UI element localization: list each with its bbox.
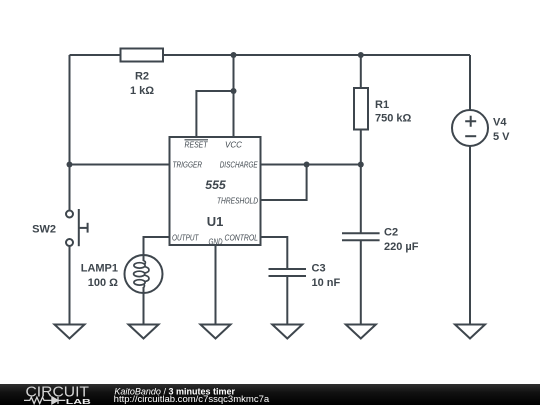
wire VCC drop (233, 55, 235, 137)
wire GND pin (215, 245, 217, 325)
logo resistor-diode squiggle (24, 397, 65, 404)
svg-text:THRESHOLD: THRESHOLD (217, 197, 258, 206)
reset overline (185, 139, 209, 141)
svg-text:OUTPUT: OUTPUT (172, 234, 199, 243)
resistor R1 (354, 88, 368, 130)
node junction top R1 (358, 52, 364, 58)
wire reset loop (196, 91, 233, 137)
node junction trigger (67, 162, 73, 168)
svg-text:100 Ω: 100 Ω (88, 277, 118, 289)
switch SW2 (66, 211, 73, 218)
node junction threshold/discharge (304, 162, 310, 168)
wire top rail (70, 54, 471, 56)
svg-text:VCC: VCC (225, 141, 242, 150)
capacitor C2 (342, 233, 380, 240)
wire discharge (261, 164, 361, 166)
svg-text:LAMP1: LAMP1 (81, 263, 118, 275)
ground (C2) (346, 325, 376, 339)
svg-text:750 kΩ: 750 kΩ (375, 113, 412, 125)
capacitor C3 (269, 269, 307, 276)
wire C3 to ground (286, 276, 288, 325)
svg-text:5 V: 5 V (493, 131, 510, 143)
node junction reset/vcc (231, 88, 237, 94)
svg-text:V4: V4 (493, 117, 507, 129)
svg-text:C2: C2 (384, 227, 398, 239)
svg-text:GND: GND (209, 238, 223, 247)
svg-text:http://circuitlab.com/c7ssqc3m: http://circuitlab.com/c7ssqc3mkmc7a (114, 394, 270, 404)
node junction top VCC (231, 52, 237, 58)
svg-text:C3: C3 (312, 263, 326, 275)
wire SW2 bottom to ground (69, 246, 71, 325)
ground (555 GND) (201, 325, 231, 339)
wire control to C3 (261, 237, 288, 269)
svg-text:RESET: RESET (185, 141, 209, 150)
wire output (144, 237, 170, 261)
svg-text:R2: R2 (135, 71, 149, 83)
svg-text:220 µF: 220 µF (384, 241, 419, 253)
svg-text:555: 555 (205, 178, 226, 192)
ground (SW2) (55, 325, 85, 339)
wire right rail R1/C2 (360, 55, 362, 325)
resistor R2 (121, 49, 164, 62)
svg-text:CONTROL: CONTROL (225, 234, 259, 243)
svg-text:10 nF: 10 nF (312, 277, 341, 289)
wire threshold (261, 165, 307, 201)
wire lamp to ground (143, 287, 145, 325)
svg-text:SW2: SW2 (32, 224, 56, 236)
wire left rail (top to SW2) (69, 55, 71, 211)
svg-text:U1: U1 (207, 214, 224, 229)
svg-text:R1: R1 (375, 99, 389, 111)
wire trigger (70, 164, 170, 166)
node junction discharge/R1 (358, 162, 364, 168)
svg-text:1 kΩ: 1 kΩ (130, 85, 154, 97)
footer bar (0, 384, 540, 405)
ground (C3) (272, 325, 302, 339)
svg-text:TRIGGER: TRIGGER (173, 161, 203, 170)
svg-text:LAB: LAB (66, 397, 92, 405)
wire V4 rail (469, 55, 471, 325)
op-amp U1 555 box (170, 137, 261, 245)
ground (lamp) (129, 325, 159, 339)
ground (V4) (455, 325, 485, 339)
svg-text:DISCHARGE: DISCHARGE (220, 161, 259, 170)
lamp LAMP1 (125, 255, 163, 293)
voltage source V4 (452, 110, 488, 146)
